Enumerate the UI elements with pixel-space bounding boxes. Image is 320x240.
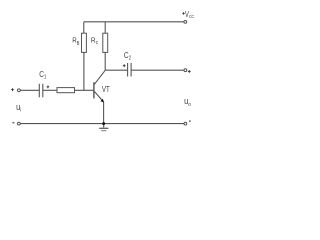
polarity plus input <box>11 88 14 91</box>
svg-text:RB: RB <box>72 36 80 47</box>
svg-text:VCC: VCC <box>185 10 195 19</box>
terminal +Vcc <box>184 21 187 24</box>
capacitor C2 plate right <box>130 63 132 77</box>
wire C2 to output terminal <box>131 69 184 71</box>
ground bar 2 <box>101 130 106 132</box>
wire bottom rail <box>20 123 184 125</box>
wire emitter down to ground rail <box>103 102 105 124</box>
polarity plus C1 <box>47 86 50 89</box>
svg-text:uo: uo <box>184 96 191 108</box>
resistor series base (unlabeled) <box>57 88 75 93</box>
wire input terminal to C1 <box>20 89 39 91</box>
capacitor C1 plate left <box>38 84 40 98</box>
terminal input - <box>18 122 21 125</box>
ground stub <box>103 124 105 128</box>
svg-text:Rc: Rc <box>91 36 98 46</box>
polarity minus output <box>189 120 191 122</box>
wire top rail <box>84 21 184 23</box>
transistor VT emitter diagonal <box>94 91 103 102</box>
junction dot ground node <box>102 122 105 125</box>
polarity plus output <box>188 70 191 73</box>
wire collector node to C2 <box>105 69 127 71</box>
wire RB top drop <box>83 22 85 33</box>
wire RC bottom to collector node <box>104 52 106 70</box>
polarity plus Vcc <box>182 12 184 14</box>
resistor RC <box>103 33 108 52</box>
terminal input + <box>18 89 21 92</box>
capacitor C2 plate left <box>127 63 129 77</box>
transistor VT emitter arrowhead <box>101 99 105 103</box>
svg-text:C1: C1 <box>39 69 46 81</box>
svg-text:VT: VT <box>102 84 110 94</box>
wire RB bottom to base node <box>83 52 85 90</box>
polarity plus C2 <box>123 64 126 67</box>
ground bar 1 <box>99 127 108 129</box>
transistor VT base bar <box>93 82 95 98</box>
terminal output + <box>184 69 187 72</box>
polarity minus input <box>13 122 15 124</box>
terminal output - <box>184 122 187 125</box>
svg-text:ui: ui <box>16 102 21 114</box>
transistor VT collector diagonal <box>94 70 105 84</box>
wire C1 to series resistor <box>43 89 57 91</box>
capacitor C1 plate right <box>42 84 44 98</box>
svg-text:C2: C2 <box>124 50 131 62</box>
wire series resistor to base <box>75 89 94 91</box>
resistor RB <box>82 33 87 52</box>
wire RC top drop <box>104 22 106 33</box>
